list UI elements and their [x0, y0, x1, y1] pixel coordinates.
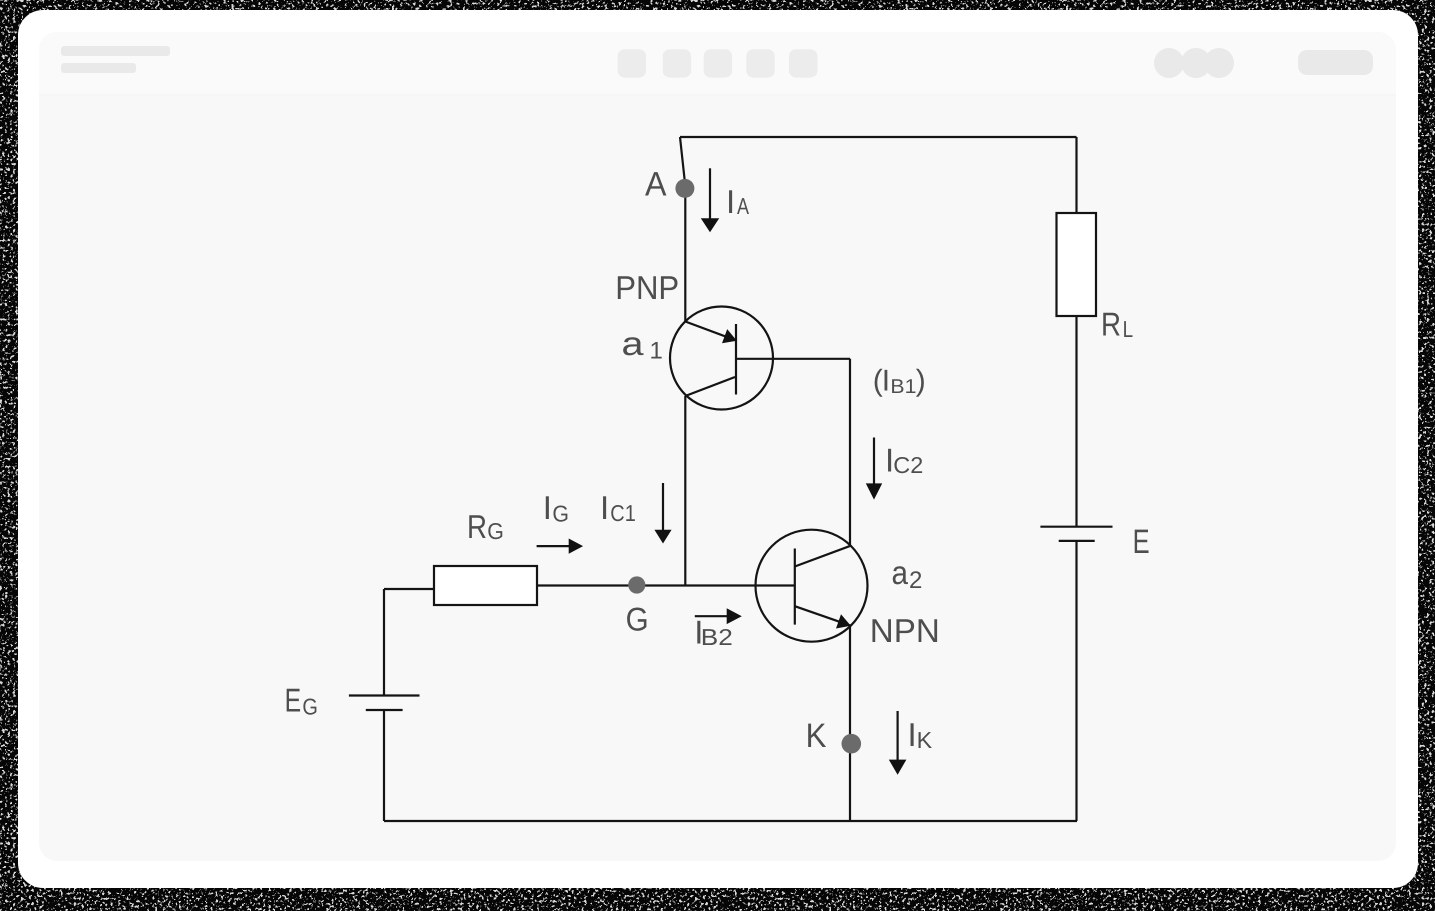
svg-text:G: G — [626, 601, 649, 638]
svg-text:): ) — [916, 365, 926, 398]
svg-text:C1: C1 — [610, 500, 636, 526]
svg-text:R: R — [467, 508, 487, 545]
svg-text:A: A — [737, 193, 750, 219]
svg-text:PNP: PNP — [615, 269, 679, 306]
svg-text:A: A — [645, 165, 667, 203]
svg-text:I: I — [543, 489, 552, 526]
svg-text:I: I — [882, 365, 890, 398]
svg-text:C2: C2 — [893, 452, 923, 478]
svg-text:I: I — [908, 716, 917, 753]
svg-text:G: G — [487, 518, 504, 544]
svg-text:1: 1 — [650, 337, 663, 364]
svg-text:NPN: NPN — [870, 612, 940, 649]
svg-text:I: I — [600, 489, 609, 526]
svg-text:E: E — [285, 682, 302, 719]
svg-text:a: a — [892, 554, 909, 591]
svg-text:B2: B2 — [701, 624, 733, 650]
svg-text:E: E — [1133, 523, 1150, 561]
svg-text:B1: B1 — [890, 376, 916, 398]
svg-text:G: G — [302, 694, 318, 720]
svg-text:I: I — [726, 183, 735, 220]
svg-text:G: G — [552, 501, 569, 527]
svg-text:K: K — [806, 717, 827, 755]
svg-text:R: R — [1101, 305, 1121, 342]
svg-text:L: L — [1123, 316, 1134, 342]
svg-text:2: 2 — [909, 567, 922, 594]
svg-text:a: a — [622, 325, 645, 362]
svg-text:K: K — [917, 727, 933, 753]
